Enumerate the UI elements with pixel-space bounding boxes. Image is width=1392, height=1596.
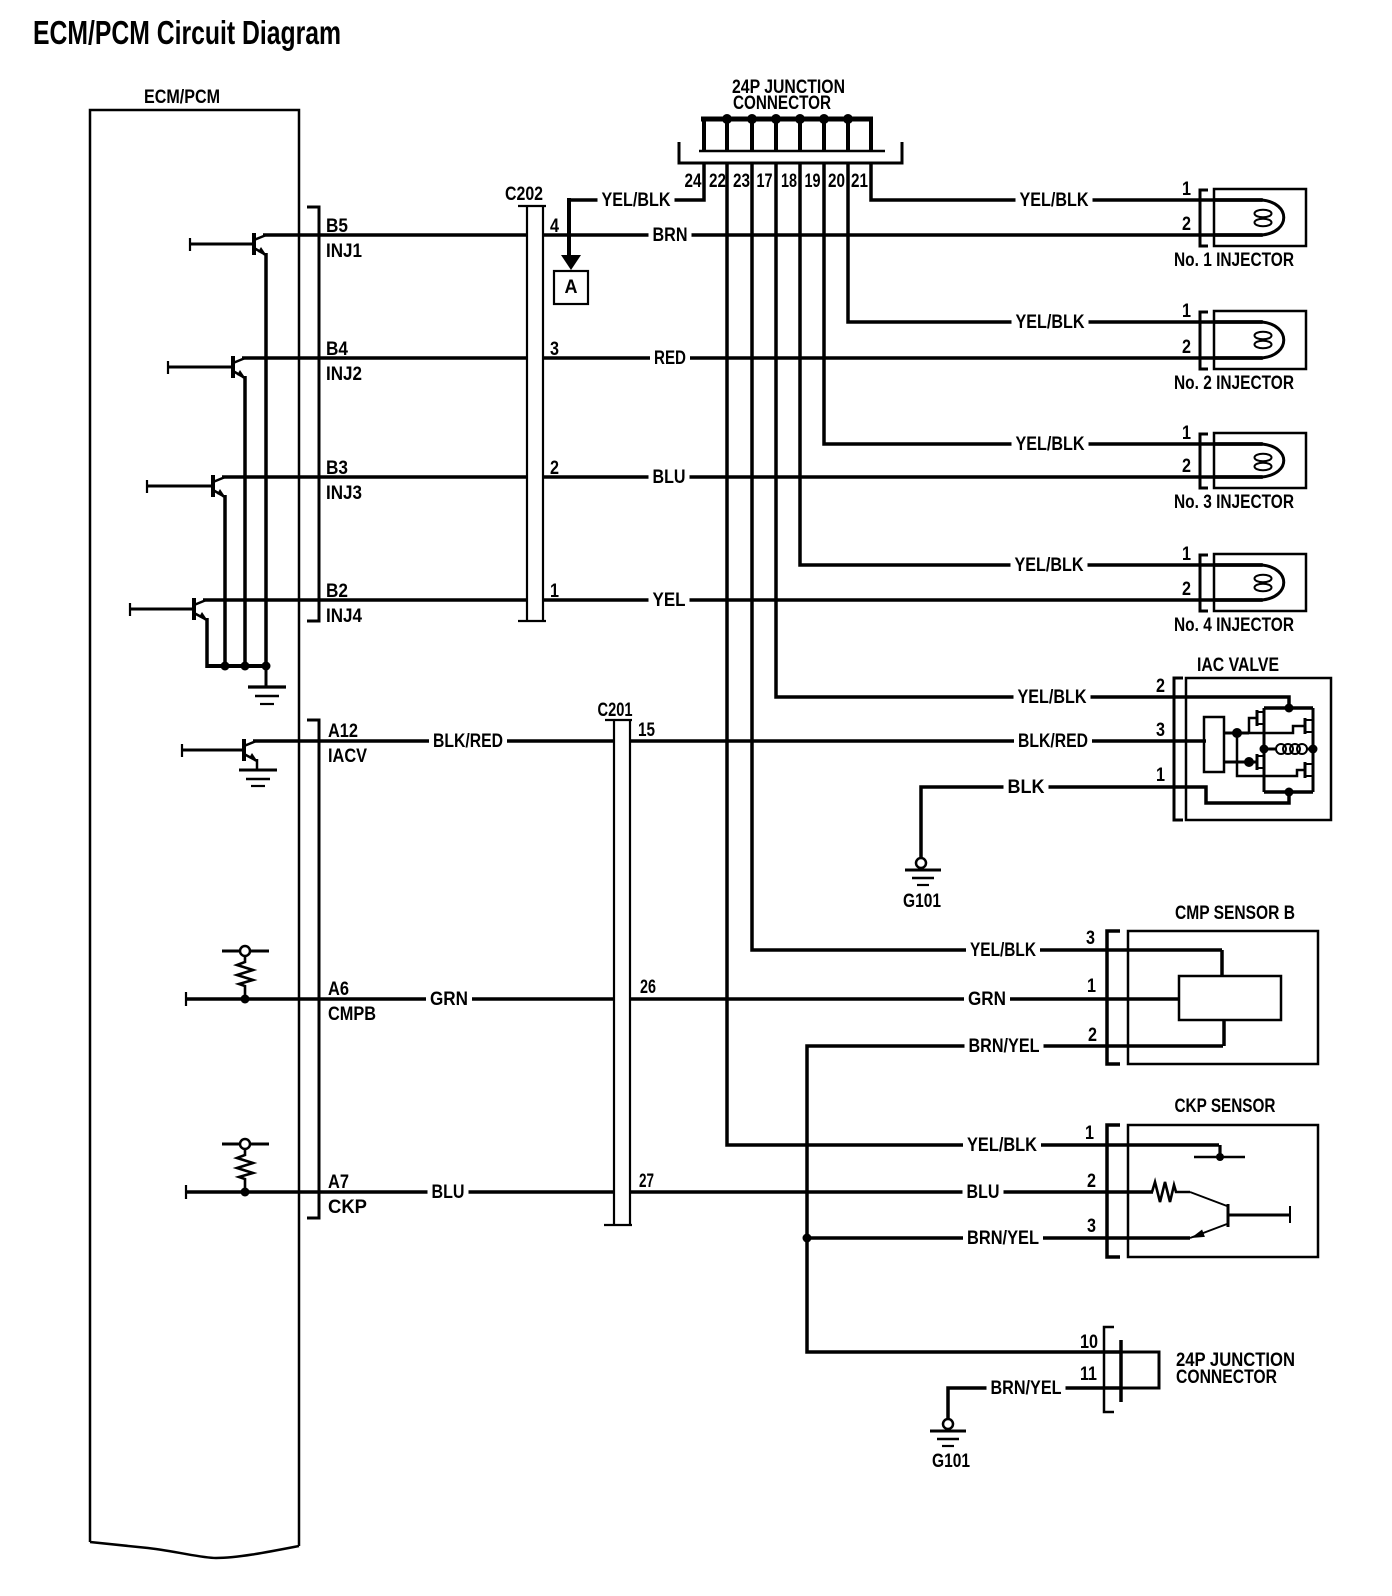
- IAC valve motor assembly: [1186, 678, 1331, 820]
- svg-text:2: 2: [1182, 456, 1191, 477]
- svg-text:2: 2: [1088, 1025, 1097, 1046]
- wire B5 INJ1 BRN to No.1 injector: [263, 233, 1263, 237]
- C201 label: [598, 700, 633, 721]
- No. 1 INJECTOR label: [1174, 250, 1294, 271]
- svg-text:2: 2: [1182, 579, 1191, 600]
- svg-text:19: 19: [805, 171, 821, 192]
- pin 20 label: [828, 171, 845, 192]
- transistor Q1 (INJ1 driver): [190, 233, 267, 668]
- pin 2 label (C202): [550, 458, 559, 479]
- pin CMPB label: [328, 1004, 376, 1025]
- pin IACV label: [328, 746, 367, 767]
- pin 2 label (IAC valve): [1156, 676, 1165, 697]
- svg-text:23: 23: [733, 171, 750, 192]
- svg-text:18: 18: [781, 171, 797, 192]
- svg-text:No. 3 INJECTOR: No. 3 INJECTOR: [1174, 492, 1294, 513]
- wire CMP sensor pin 2 BRN/YEL down to 24P junction pin 10: [807, 1046, 1223, 1352]
- svg-text:1: 1: [1085, 1123, 1094, 1144]
- svg-text:2: 2: [550, 458, 559, 479]
- pin CKP label: [328, 1197, 367, 1218]
- wire A7 CKP BLU to CKP sensor pin 2: [186, 1190, 1153, 1194]
- pin 23 label: [733, 171, 750, 192]
- svg-text:BLK/RED: BLK/RED: [433, 731, 503, 752]
- svg-text:YEL/BLK: YEL/BLK: [970, 940, 1036, 961]
- transistor Q2 (INJ2 driver): [168, 356, 246, 668]
- pin INJ2 label: [326, 364, 362, 385]
- wire pin 22 YEL/BLK to CKP sensor pin 1: [727, 163, 1219, 1145]
- pin 1 label (No.1 injector): [1182, 179, 1191, 200]
- svg-text:INJ4: INJ4: [326, 606, 362, 627]
- svg-text:21: 21: [851, 171, 868, 192]
- svg-text:INJ2: INJ2: [326, 364, 362, 385]
- svg-text:A: A: [565, 277, 578, 298]
- svg-text:No. 1 INJECTOR: No. 1 INJECTOR: [1174, 250, 1294, 271]
- svg-text:C201: C201: [598, 700, 633, 721]
- pin 27 label (C201): [639, 1171, 654, 1192]
- wire pin 21 YEL/BLK to No.1 injector pin 1: [871, 163, 1263, 200]
- pin 15 label (C201): [638, 720, 655, 741]
- svg-text:B4: B4: [326, 339, 348, 360]
- IAC VALVE label: [1197, 655, 1279, 676]
- svg-text:1: 1: [1156, 765, 1165, 786]
- svg-text:BLK: BLK: [1008, 777, 1045, 798]
- svg-text:15: 15: [638, 720, 655, 741]
- 24P JUNCTION CONNECTOR label (bottom): [1176, 1350, 1295, 1388]
- svg-text:10: 10: [1080, 1332, 1098, 1353]
- ground (injector drivers common): [248, 666, 286, 704]
- pin 21 label: [851, 171, 868, 192]
- BLU label (CKP sensor): [963, 1182, 1004, 1203]
- connector bracket No.2 injector: [1200, 312, 1208, 369]
- RED label: [650, 348, 690, 369]
- pin 19 label: [805, 171, 821, 192]
- resistor R1 (CMPB pull-up): [222, 946, 269, 1004]
- injector coil No.2 INJECTOR: [1214, 311, 1306, 369]
- pin INJ4 label: [326, 606, 362, 627]
- svg-text:YEL/BLK: YEL/BLK: [1015, 555, 1084, 576]
- pin 11 label: [1080, 1364, 1097, 1385]
- BRN label: [649, 225, 692, 246]
- wire pin 19 YEL/BLK to No.3 injector pin 1: [824, 163, 1263, 444]
- resistor R2 (CKP pull-up): [222, 1139, 269, 1197]
- svg-text:YEL/BLK: YEL/BLK: [1018, 687, 1087, 708]
- node bus junction dots: [722, 114, 853, 124]
- svg-text:G101: G101: [903, 891, 941, 912]
- svg-text:INJ1: INJ1: [326, 241, 362, 262]
- pin A7 label: [328, 1172, 349, 1193]
- ground (IACV driver emitter): [239, 759, 277, 786]
- diagram title: [33, 14, 341, 51]
- svg-text:BRN: BRN: [653, 225, 688, 246]
- pin 2 label (CMP sensor): [1088, 1025, 1097, 1046]
- YEL/BLK label (No.1 injector): [1016, 190, 1093, 211]
- svg-text:GRN: GRN: [430, 989, 468, 1010]
- wire B4 INJ2 RED to No.2 injector: [242, 356, 1263, 360]
- svg-text:CKP SENSOR: CKP SENSOR: [1175, 1096, 1276, 1117]
- wire B2 INJ4 YEL to No.4 injector: [203, 598, 1263, 602]
- svg-text:YEL/BLK: YEL/BLK: [1016, 434, 1085, 455]
- pin 1 label (C202): [550, 581, 559, 602]
- pin 2 label (No.1 injector): [1182, 214, 1191, 235]
- svg-text:20: 20: [828, 171, 845, 192]
- injector coil No.1 INJECTOR: [1214, 189, 1306, 246]
- connector C201: [604, 720, 632, 1225]
- pin 1 label (No.4 injector): [1182, 544, 1191, 565]
- wire A12 IACV BLK/RED to IAC valve pin 3: [253, 739, 1206, 743]
- svg-text:3: 3: [1087, 1216, 1096, 1237]
- svg-text:11: 11: [1080, 1364, 1097, 1385]
- svg-text:ECM/PCM Circuit Diagram: ECM/PCM Circuit Diagram: [33, 14, 341, 51]
- svg-text:B5: B5: [326, 216, 348, 237]
- svg-text:3: 3: [1086, 928, 1095, 949]
- pin 2 label (No.4 injector): [1182, 579, 1191, 600]
- YEL label: [649, 590, 690, 611]
- pin 24 label: [685, 171, 702, 192]
- connector bracket IAC valve: [1174, 678, 1183, 820]
- svg-text:2: 2: [1182, 214, 1191, 235]
- 24P junction connector housing line: [699, 150, 885, 153]
- svg-text:A12: A12: [328, 721, 358, 742]
- BLK label (IAC valve ground): [1004, 777, 1049, 798]
- svg-text:BLU: BLU: [653, 467, 686, 488]
- svg-text:3: 3: [550, 339, 559, 360]
- svg-text:27: 27: [639, 1171, 654, 1192]
- svg-text:YEL/BLK: YEL/BLK: [602, 190, 671, 211]
- wire pin 20 YEL/BLK to No.2 injector pin 1: [848, 163, 1263, 322]
- pin 2 label (No.2 injector): [1182, 337, 1191, 358]
- pin 1 label (No.3 injector): [1182, 423, 1191, 444]
- GRN label (left): [426, 989, 472, 1010]
- pin B5 label: [326, 216, 348, 237]
- page reference arrow to A: [561, 198, 581, 270]
- svg-text:YEL/BLK: YEL/BLK: [967, 1135, 1037, 1156]
- pin 1 label (No.2 injector): [1182, 301, 1191, 322]
- svg-text:CONNECTOR: CONNECTOR: [1176, 1367, 1277, 1388]
- svg-text:C202: C202: [505, 184, 543, 205]
- svg-text:A7: A7: [328, 1172, 349, 1193]
- YEL/BLK label (CMP sensor): [966, 940, 1040, 961]
- svg-text:1: 1: [1182, 179, 1191, 200]
- pin 17 label: [757, 171, 773, 192]
- transistor Q3 (INJ3 driver): [147, 475, 226, 668]
- pin 18 label: [781, 171, 797, 192]
- BLU label (left CKP): [428, 1182, 469, 1203]
- wire pin 17 YEL/BLK to IAC valve pin 2: [776, 163, 1287, 697]
- CMP SENSOR B label: [1175, 903, 1295, 924]
- svg-text:22: 22: [709, 171, 726, 192]
- No. 2 INJECTOR label: [1174, 373, 1294, 394]
- 24P junction connector (top) bus bar: [701, 117, 873, 122]
- 24P junction connector housing bracket: [679, 142, 902, 163]
- pin B3 label: [326, 458, 348, 479]
- wire pin 24 to page reference A (YEL/BLK): [569, 163, 704, 200]
- wire pin 11 BRN/YEL to G101: [948, 1388, 1121, 1419]
- YEL/BLK label (page ref A): [598, 190, 675, 211]
- svg-text:INJ3: INJ3: [326, 483, 362, 504]
- pin B4 label: [326, 339, 348, 360]
- svg-text:1: 1: [1182, 301, 1191, 322]
- svg-text:2: 2: [1156, 676, 1165, 697]
- pin 3 label (CKP sensor): [1087, 1216, 1096, 1237]
- YEL/BLK label (CKP sensor): [963, 1135, 1041, 1156]
- svg-text:RED: RED: [654, 348, 686, 369]
- wire BRN/YEL to CKP sensor pin 3: [807, 1236, 1190, 1240]
- svg-text:2: 2: [1087, 1171, 1096, 1192]
- GRN label (CMP sensor): [964, 989, 1010, 1010]
- BLU label: [649, 467, 690, 488]
- page reference box A: [554, 271, 588, 304]
- svg-text:1: 1: [550, 581, 559, 602]
- svg-text:2: 2: [1182, 337, 1191, 358]
- pin 2 label (No.3 injector): [1182, 456, 1191, 477]
- svg-text:BLU: BLU: [432, 1182, 465, 1203]
- svg-text:17: 17: [757, 171, 773, 192]
- svg-text:G101: G101: [932, 1451, 970, 1472]
- svg-text:YEL/BLK: YEL/BLK: [1020, 190, 1089, 211]
- connector bracket No.3 injector: [1200, 434, 1208, 488]
- injector coil No.4 INJECTOR: [1214, 554, 1306, 611]
- pin tick A7 wire start: [185, 1185, 187, 1199]
- svg-text:GRN: GRN: [968, 989, 1006, 1010]
- YEL/BLK label (IAC valve): [1014, 687, 1091, 708]
- 24P junction connector teeth: [704, 117, 871, 151]
- svg-text:CMPB: CMPB: [328, 1004, 376, 1025]
- wire pin 23 YEL/BLK to CMP sensor pin 3: [752, 163, 1222, 950]
- pin 4 label (C202): [550, 216, 559, 237]
- BLK/RED label (IAC valve): [1014, 731, 1092, 752]
- pin 3 label (CMP sensor): [1086, 928, 1095, 949]
- pin 1 label (CMP sensor): [1087, 976, 1096, 997]
- ECM/PCM module box: [90, 110, 299, 1558]
- wire emitter common bus: [207, 664, 267, 668]
- svg-text:4: 4: [550, 216, 559, 237]
- connector bracket No.1 injector: [1200, 190, 1208, 246]
- ground G101 (IAC valve): [905, 858, 941, 885]
- CKP SENSOR label: [1175, 1096, 1276, 1117]
- pin INJ1 label: [326, 241, 362, 262]
- svg-text:BRN/YEL: BRN/YEL: [991, 1378, 1062, 1399]
- node BRN/YEL junction at CKP pin 3 branch: [803, 1234, 812, 1243]
- svg-text:No. 2 INJECTOR: No. 2 INJECTOR: [1174, 373, 1294, 394]
- wire pin 18 YEL/BLK to No.4 injector pin 1: [800, 163, 1263, 565]
- pin 10 label: [1080, 1332, 1098, 1353]
- CKP sensor element: [1128, 1125, 1318, 1257]
- svg-text:IACV: IACV: [328, 746, 367, 767]
- svg-text:CONNECTOR: CONNECTOR: [733, 93, 831, 114]
- G101 label (24P junction): [932, 1451, 970, 1472]
- connector bracket No.4 injector: [1200, 555, 1208, 611]
- ECM/PCM label: [144, 87, 220, 108]
- C202 label: [505, 184, 543, 205]
- wire B3 INJ3 BLU to No.3 injector: [222, 475, 1263, 479]
- svg-text:B2: B2: [326, 581, 348, 602]
- BLK/RED label (left): [429, 731, 507, 752]
- pin 26 label (C201): [640, 977, 656, 998]
- BRN/YEL label (24P junction pin 11): [987, 1378, 1066, 1399]
- 24P JUNCTION CONNECTOR label (top): [732, 77, 845, 114]
- injector coil No.3 INJECTOR: [1214, 433, 1306, 488]
- pin A6 label: [328, 979, 349, 1000]
- BRN/YEL label (CKP sensor pin 3): [963, 1228, 1043, 1249]
- pin A12 label: [328, 721, 358, 742]
- No. 3 INJECTOR label: [1174, 492, 1294, 513]
- CMP sensor B element: [1128, 931, 1318, 1064]
- transistor Q5 (IACV driver): [182, 739, 258, 762]
- svg-text:1: 1: [1182, 423, 1191, 444]
- 24P junction connector (bottom) body: [1121, 1340, 1159, 1402]
- pin B2 label: [326, 581, 348, 602]
- No. 4 INJECTOR label: [1174, 615, 1294, 636]
- pin tick A6 wire start: [185, 992, 187, 1006]
- svg-text:24: 24: [685, 171, 702, 192]
- svg-text:1: 1: [1182, 544, 1191, 565]
- svg-text:BRN/YEL: BRN/YEL: [969, 1036, 1040, 1057]
- G101 label (IAC): [903, 891, 941, 912]
- pin 3 label (C202): [550, 339, 559, 360]
- svg-text:BLU: BLU: [967, 1182, 1000, 1203]
- pin 1 label (IAC valve): [1156, 765, 1165, 786]
- pin 1 label (CKP sensor): [1085, 1123, 1094, 1144]
- ground G101 (24P junction): [930, 1419, 966, 1446]
- ECM pin bracket (A12/A6/A7 group): [307, 720, 319, 1218]
- connector bracket 24P junction (bottom): [1104, 1327, 1114, 1412]
- svg-text:IAC VALVE: IAC VALVE: [1197, 655, 1279, 676]
- svg-text:CMP SENSOR B: CMP SENSOR B: [1175, 903, 1295, 924]
- svg-text:No. 4 INJECTOR: No. 4 INJECTOR: [1174, 615, 1294, 636]
- wire IAC valve pin 1 BLK to G101: [921, 787, 1205, 859]
- svg-text:YEL/BLK: YEL/BLK: [1016, 312, 1085, 333]
- transistor Q4 (INJ4 driver): [130, 598, 208, 668]
- svg-text:B3: B3: [326, 458, 348, 479]
- svg-text:YEL: YEL: [653, 590, 686, 611]
- svg-text:BRN/YEL: BRN/YEL: [967, 1228, 1039, 1249]
- svg-text:A6: A6: [328, 979, 349, 1000]
- pin 22 label: [709, 171, 726, 192]
- pin INJ3 label: [326, 483, 362, 504]
- svg-text:1: 1: [1087, 976, 1096, 997]
- connector C202: [518, 206, 546, 621]
- svg-text:26: 26: [640, 977, 656, 998]
- YEL/BLK label (No.3 injector): [1012, 434, 1089, 455]
- svg-text:ECM/PCM: ECM/PCM: [144, 87, 220, 108]
- svg-text:BLK/RED: BLK/RED: [1018, 731, 1088, 752]
- pin 2 label (CKP sensor): [1087, 1171, 1096, 1192]
- connector bracket CKP sensor: [1107, 1125, 1120, 1257]
- ECM pin bracket (injector driver group B5-B2): [307, 207, 319, 621]
- wire A6 CMPB GRN to CMP sensor pin 1: [186, 997, 1180, 1001]
- YEL/BLK label (No.2 injector): [1012, 312, 1089, 333]
- svg-text:3: 3: [1156, 720, 1165, 741]
- pin 3 label (IAC valve): [1156, 720, 1165, 741]
- node emitter bus junctions: [221, 662, 271, 671]
- svg-text:CKP: CKP: [328, 1197, 367, 1218]
- connector bracket CMP sensor B: [1107, 931, 1120, 1064]
- BRN/YEL label (CMP sensor): [965, 1036, 1044, 1057]
- YEL/BLK label (No.4 injector): [1011, 555, 1088, 576]
